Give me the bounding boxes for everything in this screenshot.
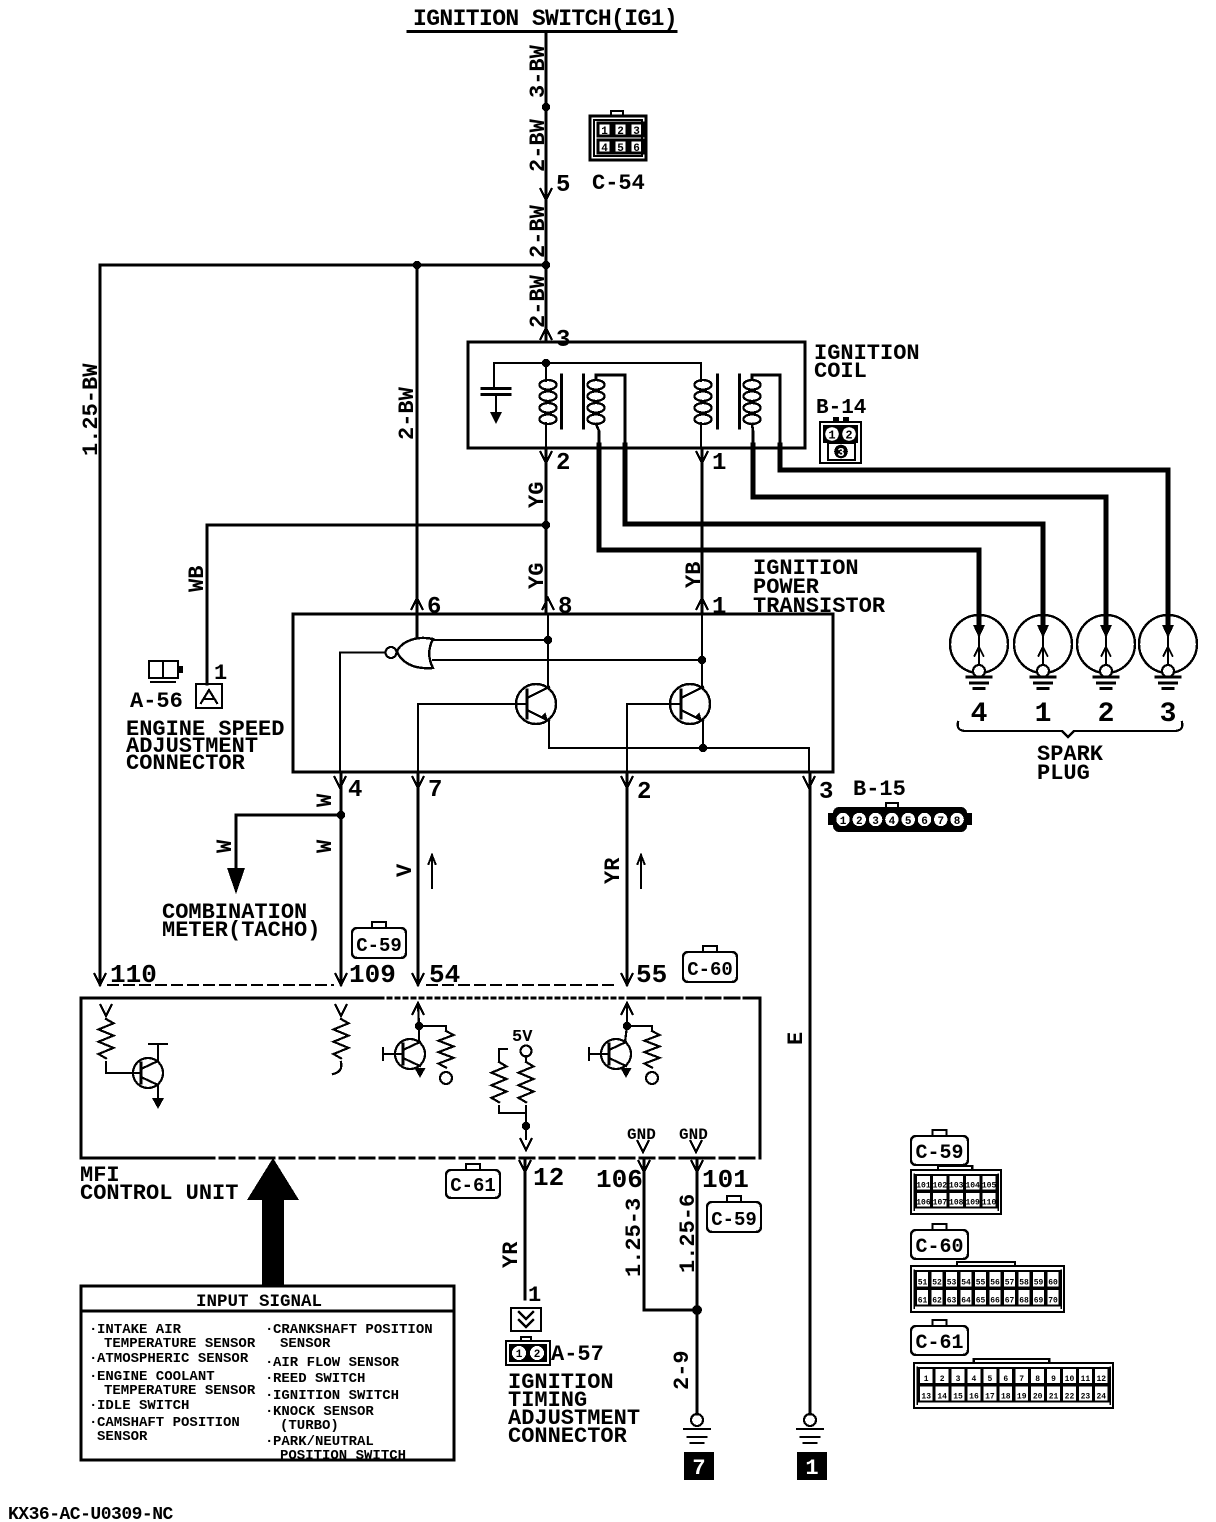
junction splice on feed wire — [542, 103, 550, 111]
svg-text:2-BW: 2-BW — [395, 386, 420, 440]
ground reference square 1 — [797, 1452, 827, 1481]
svg-text:V: V — [393, 863, 418, 877]
MFI connector interface dashed line (54-55) — [427, 984, 619, 986]
connector C-61 inline icon — [446, 1164, 500, 1198]
label IGNITION TIMING ADJUSTMENT CONNECTOR — [508, 1370, 640, 1449]
svg-text:109: 109 — [349, 960, 396, 990]
secondary 2 bottom lead — [752, 424, 753, 446]
svg-text:1: 1 — [601, 126, 608, 138]
svg-text:1: 1 — [528, 1283, 541, 1308]
wire label 2-9 — [670, 1350, 695, 1390]
MFI internal: pin110 resistor — [99, 1019, 114, 1058]
svg-text:GND: GND — [627, 1126, 656, 1144]
svg-text:2: 2 — [617, 126, 624, 138]
A-57 double chevron box — [511, 1308, 541, 1331]
wire label 2-BW (above coil) — [526, 274, 551, 328]
transistor pin 1 entry — [697, 594, 727, 621]
connector B-14 icon — [820, 417, 861, 463]
ignition power transistor box — [293, 614, 833, 772]
svg-text:8: 8 — [1035, 1375, 1040, 1384]
connector B-15 icon — [828, 803, 972, 832]
svg-text:INPUT SIGNAL: INPUT SIGNAL — [196, 1292, 322, 1312]
MFI pin 54 entry — [413, 960, 461, 990]
MFI internal: pin110 wire to transistor base — [106, 1062, 141, 1073]
svg-text:6: 6 — [1003, 1375, 1008, 1384]
transistor pin 4 exit — [335, 777, 363, 804]
svg-text:61: 61 — [918, 1297, 928, 1306]
gate output wire to pin 4 — [340, 653, 386, 773]
svg-text:2: 2 — [940, 1375, 945, 1384]
svg-text:2-9: 2-9 — [670, 1350, 695, 1390]
svg-text:3: 3 — [872, 816, 879, 828]
secondary 1 top lead to HV wire — [596, 375, 625, 446]
wire YR MFI-12 to A-57 — [524, 1158, 527, 1299]
svg-text:15: 15 — [953, 1393, 963, 1402]
svg-text:7: 7 — [1019, 1375, 1024, 1384]
svg-text:C-59: C-59 — [915, 1142, 963, 1165]
wire YG coil-2 to transistor pin 8 — [545, 448, 548, 614]
svg-text:22: 22 — [1065, 1393, 1075, 1402]
svg-text:4: 4 — [971, 699, 988, 730]
svg-text:IGNITION SWITCH(IG1): IGNITION SWITCH(IG1) — [413, 6, 677, 32]
svg-text:B-14: B-14 — [816, 397, 866, 420]
power transistor T1 — [516, 684, 556, 724]
svg-text:5: 5 — [556, 172, 570, 199]
svg-text:14: 14 — [937, 1393, 947, 1402]
wire label YR — [601, 857, 626, 884]
signal direction arrow (pin 55) — [638, 855, 645, 888]
svg-text:1: 1 — [805, 1456, 818, 1481]
svg-text:COIL: COIL — [814, 359, 867, 384]
svg-text:21: 21 — [1049, 1393, 1059, 1402]
wire label 1.25-BW — [79, 363, 104, 456]
svg-text:5: 5 — [987, 1375, 992, 1384]
MFI internal: pin54 node — [415, 1022, 423, 1030]
svg-text:23: 23 — [1081, 1393, 1091, 1402]
A-57 pin 1 label — [528, 1283, 541, 1308]
svg-text:1: 1 — [712, 450, 726, 477]
wire ignition feed from IG1 down to coil pin 3 — [545, 33, 548, 342]
svg-text:110: 110 — [982, 1199, 997, 1208]
MFI internal: pin54 entry arrowhead — [413, 1003, 424, 1026]
svg-text:A-56: A-56 — [130, 689, 183, 714]
wire pin4 to MFI 109 and tacho — [340, 772, 343, 984]
svg-text:3: 3 — [956, 1375, 961, 1384]
coil primary winding 2 — [695, 363, 712, 448]
connector A-57 icon — [506, 1337, 550, 1365]
wire branch to left (to x=100 and x=416) — [100, 264, 546, 267]
MFI internal: pin109 input arrowhead — [336, 1005, 347, 1016]
svg-text:YG: YG — [525, 482, 550, 508]
wire label WB — [185, 566, 210, 592]
secondary 1 bottom lead — [596, 424, 599, 446]
svg-text:W: W — [313, 839, 338, 853]
MFI internal: pin55 pull resistor and terminal — [627, 1026, 660, 1084]
connector C-59 pinout grid — [911, 1166, 1001, 1214]
wire label 3-BW — [526, 44, 551, 98]
coil pin 2 exit arrow — [541, 450, 571, 477]
wire pin8 to T1 collector — [547, 614, 549, 687]
svg-text:(TURBO): (TURBO) — [280, 1418, 339, 1434]
svg-text:17: 17 — [985, 1393, 995, 1402]
svg-text:54: 54 — [961, 1279, 971, 1288]
label A-57 — [551, 1342, 604, 1367]
svg-text:62: 62 — [932, 1297, 942, 1306]
svg-text:3: 3 — [556, 327, 570, 354]
svg-text:1: 1 — [840, 816, 847, 828]
input signal list left column — [89, 1322, 256, 1445]
svg-text:103: 103 — [949, 1182, 964, 1191]
coil internal supply bus — [494, 362, 701, 364]
svg-text:W: W — [313, 793, 338, 807]
MFI internal: pin54 pull resistor and terminal — [419, 1026, 454, 1084]
MFI pin 55 entry — [622, 960, 668, 990]
wire label 2-BW (transistor feed) — [395, 386, 420, 440]
label ENGINE SPEED ADJUSTMENT CONNECTOR — [126, 717, 284, 776]
svg-text:C-60: C-60 — [915, 1236, 963, 1259]
svg-text:19: 19 — [1017, 1393, 1027, 1402]
MFI internal: pin55 entry arrowhead — [622, 1003, 633, 1026]
MFI internal: node to pin 12 — [521, 1122, 532, 1150]
HV lead secondary1-bottom to spark plug 4 — [599, 445, 979, 625]
svg-text:GND: GND — [679, 1126, 708, 1144]
label SPARK PLUG — [1037, 742, 1104, 786]
svg-text:C-59: C-59 — [711, 1209, 757, 1231]
svg-text:65: 65 — [976, 1297, 986, 1306]
svg-text:4: 4 — [601, 143, 608, 155]
svg-text:16: 16 — [969, 1393, 979, 1402]
svg-text:1.25-3: 1.25-3 — [622, 1198, 647, 1277]
svg-text:4: 4 — [889, 816, 896, 828]
svg-text:IGNITION SWITCH: IGNITION SWITCH — [273, 1388, 399, 1404]
svg-text:CONNECTOR: CONNECTOR — [126, 751, 246, 776]
coil core 1 — [562, 375, 584, 428]
secondary 2 top lead to HV wire — [752, 375, 780, 446]
HV lead secondary2-top to spark plug 3 — [780, 445, 1168, 625]
svg-text:C-59: C-59 — [356, 935, 402, 957]
svg-text:C-60: C-60 — [687, 959, 733, 981]
svg-text:11: 11 — [1081, 1375, 1091, 1384]
svg-text:8: 8 — [558, 594, 572, 621]
MFI internal: 5V supply label — [512, 1028, 533, 1047]
MFI internal: 5V pull-up resistor — [519, 1056, 534, 1126]
svg-text:55: 55 — [976, 1279, 986, 1288]
label A-56 — [130, 689, 183, 714]
connector C-54 label — [592, 171, 645, 196]
svg-text:C-54: C-54 — [592, 171, 645, 196]
svg-text:70: 70 — [1048, 1297, 1058, 1306]
MFI internal: GND arrowhead (101) — [691, 1141, 702, 1152]
MFI internal: GND label (101) — [679, 1126, 708, 1144]
svg-text:SENSOR: SENSOR — [280, 1336, 331, 1352]
wire label YB — [682, 562, 707, 588]
svg-text:A-57: A-57 — [551, 1342, 604, 1367]
svg-text:E: E — [784, 1032, 809, 1045]
svg-text:3-BW: 3-BW — [526, 44, 551, 98]
MFI internal: pin55 node — [623, 1022, 631, 1030]
label IGNITION POWER TRANSISTOR — [753, 556, 886, 619]
svg-text:105: 105 — [982, 1182, 997, 1191]
wire 1.25-BW long left drop to MFI pin 110 — [99, 265, 102, 984]
connector A-56 housing icon — [149, 661, 183, 682]
connector C-59 inline icon (tacho wire) — [352, 922, 406, 958]
wire label 2-BW (above C-54) — [526, 118, 551, 172]
svg-text:2-BW: 2-BW — [526, 204, 551, 258]
svg-text:TEMPERATURE SENSOR: TEMPERATURE SENSOR — [104, 1336, 256, 1352]
svg-text:1.25-6: 1.25-6 — [676, 1194, 701, 1273]
A-56 adjustment symbol box — [196, 684, 222, 708]
wire label W (above tacho tap) — [313, 793, 338, 807]
wire label 1.25-3 — [622, 1198, 647, 1277]
svg-text:WB: WB — [185, 566, 210, 592]
spark plug cyl 3 — [1139, 615, 1197, 730]
label INPUT SIGNAL — [196, 1292, 322, 1312]
svg-text:POSITION SWITCH: POSITION SWITCH — [280, 1448, 406, 1464]
svg-text:24: 24 — [1096, 1393, 1106, 1402]
wire E pin3 to body ground — [809, 772, 812, 1414]
svg-text:B-15: B-15 — [853, 777, 906, 802]
svg-text:3: 3 — [633, 126, 640, 138]
connector C-61 pinout grid — [914, 1359, 1113, 1408]
junction at x=416 — [413, 261, 421, 269]
connector C-61 pinout label — [911, 1320, 968, 1355]
svg-text:1: 1 — [924, 1375, 929, 1384]
transistor pin 7 exit — [413, 777, 443, 804]
ground symbol (wire 2-9) — [684, 1414, 710, 1443]
svg-text:IDLE SWITCH: IDLE SWITCH — [97, 1398, 189, 1414]
MFI internal: GND arrowhead (106) — [638, 1141, 649, 1152]
wire 106 ground lead — [644, 1158, 697, 1310]
svg-text:5: 5 — [617, 143, 624, 155]
combination meter arrow — [227, 845, 245, 894]
svg-text:106: 106 — [916, 1199, 931, 1208]
svg-text:57: 57 — [1005, 1279, 1015, 1288]
MFI pin 109 entry — [336, 960, 396, 990]
wire label YG (upper) — [525, 482, 550, 508]
junction node at branch to MFI pin 110 — [542, 261, 550, 269]
svg-text:C-61: C-61 — [450, 1175, 496, 1197]
svg-text:3: 3 — [837, 446, 844, 460]
coil secondary winding 2 — [744, 380, 761, 424]
NOR gate (tacho signal) — [386, 638, 434, 668]
svg-text:1: 1 — [712, 594, 726, 621]
gate input from T2 collector — [433, 656, 706, 664]
MFI internal: transistor (pin54 circuit) — [383, 1026, 426, 1078]
wire 101 ground lead — [696, 1158, 699, 1414]
svg-text:2: 2 — [637, 779, 651, 806]
svg-text:6: 6 — [427, 594, 441, 621]
wire label W (below tacho tap) — [313, 839, 338, 853]
wire branch to combination meter — [236, 815, 341, 870]
svg-text:YG: YG — [525, 563, 550, 589]
svg-text:67: 67 — [1005, 1297, 1015, 1306]
wire pin7 to MFI 54 — [417, 772, 420, 984]
svg-text:2: 2 — [845, 429, 852, 443]
svg-text:ATMOSPHERIC SENSOR: ATMOSPHERIC SENSOR — [97, 1351, 249, 1367]
common emitter bus to pin 3 — [549, 744, 809, 772]
svg-text:60: 60 — [1048, 1279, 1058, 1288]
svg-text:64: 64 — [961, 1297, 971, 1306]
svg-text:7: 7 — [937, 816, 944, 828]
ground reference square 7 — [684, 1452, 714, 1481]
coil pin 3 entry arrow — [541, 327, 571, 354]
spark plug cyl 2 — [1077, 615, 1135, 730]
wire label V — [393, 863, 418, 877]
MFI internal: GND label (106) — [627, 1126, 656, 1144]
MFI internal: transistor (pin55 circuit) — [589, 1026, 632, 1078]
coil primary winding 1 — [540, 363, 557, 448]
connector B-14 label — [816, 397, 866, 420]
connector C-60 inline icon — [683, 946, 737, 982]
svg-text:59: 59 — [1034, 1279, 1044, 1288]
connector C-60 pinout grid — [911, 1262, 1064, 1312]
svg-text:1: 1 — [516, 1349, 523, 1361]
transistor pin 6 entry — [412, 594, 442, 621]
svg-text:20: 20 — [1033, 1393, 1043, 1402]
gate input from T1 collector — [433, 636, 552, 644]
capacitor (noise condenser) — [482, 363, 510, 424]
junction tacho branch — [337, 811, 345, 819]
wire label 1.25-6 — [676, 1194, 701, 1273]
connector C-54 inline arrow, pin 5 — [541, 172, 571, 200]
svg-text:C-61: C-61 — [915, 1332, 963, 1355]
svg-text:101: 101 — [702, 1165, 749, 1195]
svg-text:2: 2 — [534, 1349, 541, 1361]
T2 emitter to common emitter bus — [702, 721, 704, 748]
svg-text:4: 4 — [348, 777, 362, 804]
svg-text:13: 13 — [921, 1393, 931, 1402]
svg-text:2-BW: 2-BW — [526, 118, 551, 172]
INPUT SIGNAL block arrow — [247, 1158, 299, 1285]
connector C-60 pinout label — [911, 1224, 968, 1259]
wire label E — [784, 1032, 809, 1045]
coil secondary winding 1 — [588, 380, 605, 424]
svg-text:18: 18 — [1001, 1393, 1011, 1402]
svg-text:108: 108 — [949, 1199, 964, 1208]
svg-text:2: 2 — [856, 816, 863, 828]
junction ground wires — [692, 1305, 702, 1315]
wire label 2-BW (below C-54) — [526, 204, 551, 258]
connector B-15 label — [853, 777, 906, 802]
power transistor T2 — [670, 684, 710, 724]
svg-text:CONTROL UNIT: CONTROL UNIT — [80, 1181, 238, 1206]
svg-text:TEMPERATURE SENSOR: TEMPERATURE SENSOR — [104, 1383, 256, 1399]
svg-text:10: 10 — [1065, 1375, 1075, 1384]
svg-text:YR: YR — [499, 1241, 524, 1268]
svg-text:106: 106 — [596, 1165, 643, 1195]
svg-text:7: 7 — [428, 777, 442, 804]
svg-text:2-BW: 2-BW — [526, 274, 551, 328]
node IGNITION SWITCH(IG1) title — [408, 6, 677, 32]
svg-text:W: W — [213, 839, 238, 853]
svg-text:12: 12 — [533, 1163, 564, 1193]
svg-text:109: 109 — [965, 1199, 980, 1208]
transistor pin 2 exit — [622, 777, 652, 806]
svg-text:8: 8 — [954, 816, 961, 828]
coil core 2 — [718, 375, 740, 428]
svg-text:68: 68 — [1019, 1297, 1029, 1306]
svg-text:6: 6 — [921, 816, 928, 828]
MFI pin 101 exit — [692, 1161, 749, 1195]
svg-text:6: 6 — [633, 143, 640, 155]
connector C-59 pinout label — [911, 1130, 968, 1165]
input signal list right column — [265, 1322, 433, 1464]
ignition coil box — [468, 342, 805, 448]
transistor pin 3 exit — [804, 777, 834, 806]
svg-text:CONNECTOR: CONNECTOR — [508, 1424, 628, 1449]
wire pin2 to MFI 55 — [626, 772, 629, 984]
transistor pin 8 entry — [543, 594, 573, 621]
svg-text:KX36-AC-U0309-NC: KX36-AC-U0309-NC — [8, 1505, 174, 1522]
wire label W (meter branch) — [213, 839, 238, 853]
svg-text:58: 58 — [1019, 1279, 1029, 1288]
svg-text:REED SWITCH: REED SWITCH — [273, 1371, 365, 1387]
svg-text:53: 53 — [947, 1279, 957, 1288]
svg-text:12: 12 — [1096, 1375, 1106, 1384]
junction coil bus — [542, 359, 550, 367]
coil pin 1 exit arrow — [697, 450, 727, 477]
T2 base wire down to pin 2 — [627, 704, 681, 772]
junction to engine speed adjustment connector — [542, 521, 550, 529]
svg-text:1: 1 — [828, 429, 835, 443]
spark plug group bracket — [958, 722, 1183, 737]
wire label YR (A-57) — [499, 1241, 524, 1268]
svg-text:63: 63 — [947, 1297, 957, 1306]
svg-text:56: 56 — [990, 1279, 1000, 1288]
svg-text:4: 4 — [972, 1375, 977, 1384]
svg-text:2: 2 — [1098, 699, 1115, 730]
HV lead secondary2-bottom to spark plug 2 — [753, 445, 1106, 625]
MFI pin 110 entry — [95, 960, 157, 990]
wire pin1 to T2 collector — [701, 614, 703, 687]
signal direction arrow (pin 54) — [429, 855, 436, 888]
svg-text:5: 5 — [905, 816, 912, 828]
svg-text:101: 101 — [916, 1182, 931, 1191]
svg-text:5V: 5V — [512, 1028, 533, 1047]
spark plug cyl 4 — [950, 615, 1008, 730]
coil label IGNITION COIL — [814, 341, 920, 384]
label COMBINATION METER(TACHO) — [162, 900, 320, 943]
connector C-59 inline icon (ground wires) — [707, 1196, 761, 1232]
HV lead secondary1-top to spark plug 1 — [625, 445, 1043, 625]
MFI internal: pin110 input arrowhead — [101, 1005, 112, 1017]
label MFI CONTROL UNIT — [80, 1163, 238, 1206]
svg-text:66: 66 — [990, 1297, 1000, 1306]
svg-text:55: 55 — [636, 960, 667, 990]
svg-text:69: 69 — [1034, 1297, 1044, 1306]
MFI internal: transistor (pin110 circuit) — [133, 1044, 167, 1109]
INPUT SIGNAL box — [81, 1286, 454, 1460]
svg-text:107: 107 — [933, 1199, 948, 1208]
T1 emitter to common emitter bus — [548, 721, 550, 748]
svg-text:AIR FLOW SENSOR: AIR FLOW SENSOR — [273, 1355, 400, 1371]
MFI internal: parallel resistor with stubs — [492, 1049, 527, 1113]
svg-text:3: 3 — [819, 779, 833, 806]
svg-text:YR: YR — [601, 857, 626, 884]
A-56 pin 1 label — [214, 661, 227, 686]
MFI internal: pin109 resistor with open end — [333, 1019, 349, 1074]
svg-text:9: 9 — [1051, 1375, 1056, 1384]
svg-text:102: 102 — [933, 1182, 948, 1191]
svg-text:7: 7 — [692, 1456, 705, 1481]
spark plug cyl 1 — [1014, 615, 1072, 730]
svg-text:52: 52 — [932, 1279, 942, 1288]
svg-text:104: 104 — [965, 1182, 980, 1191]
svg-text:1.25-BW: 1.25-BW — [79, 363, 104, 456]
svg-text:51: 51 — [918, 1279, 928, 1288]
svg-text:1: 1 — [1035, 699, 1052, 730]
diagram code KX36-AC-U0309-NC — [8, 1505, 174, 1522]
